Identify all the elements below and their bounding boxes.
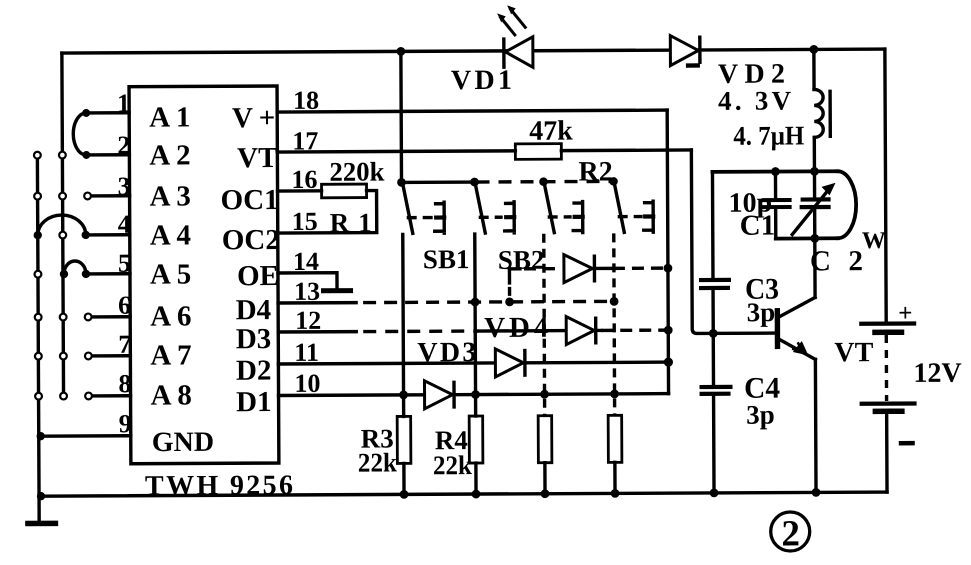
svg-text:VT: VT [834,337,873,368]
svg-text:A 2: A 2 [149,139,190,171]
svg-text:15: 15 [292,207,318,236]
svg-text:VT: VT [237,142,277,174]
svg-text:OC1: OC1 [221,184,279,216]
svg-text:C1: C1 [740,210,776,242]
svg-text:OC2: OC2 [222,224,280,256]
svg-text:VD3: VD3 [417,337,476,368]
svg-text:7: 7 [118,330,131,359]
svg-text:GND: GND [152,427,214,458]
svg-text:3p: 3p [746,400,775,430]
svg-text:13: 13 [294,277,320,306]
svg-text:2: 2 [117,131,130,160]
svg-text:18: 18 [293,86,319,115]
svg-text:SB2: SB2 [498,245,545,275]
svg-text:A 3: A 3 [150,180,191,212]
svg-text:10: 10 [294,369,320,398]
svg-text:14: 14 [293,247,319,276]
svg-text:2: 2 [781,513,800,554]
svg-text:12: 12 [295,306,321,335]
svg-text:A 7: A 7 [150,339,191,371]
svg-text:1: 1 [117,89,130,118]
svg-text:8: 8 [118,369,131,398]
svg-text:V +: V + [232,102,275,134]
svg-text:D2: D2 [236,355,272,387]
svg-text:VD1: VD1 [451,65,512,96]
svg-text:A 8: A 8 [150,379,191,411]
svg-text:R2: R2 [578,156,612,187]
svg-text:11: 11 [294,338,319,367]
svg-text:SB1: SB1 [423,244,470,274]
svg-text:A 5: A 5 [150,258,191,290]
svg-text:D4: D4 [236,294,272,326]
svg-text:D3: D3 [236,323,272,355]
svg-text:A 6: A 6 [150,300,191,332]
svg-text:3: 3 [117,172,130,201]
svg-text:W: W [862,228,886,254]
svg-text:17: 17 [292,126,318,155]
svg-text:220k: 220k [329,156,384,186]
svg-text:5: 5 [118,249,131,278]
svg-text:D1: D1 [236,386,272,418]
svg-text:4. 7μH: 4. 7μH [733,120,804,150]
svg-text:+: + [898,300,912,327]
svg-text:22k: 22k [433,450,472,480]
svg-text:4. 3V: 4. 3V [718,85,792,115]
svg-text:6: 6 [118,291,131,320]
svg-text:4: 4 [118,210,131,239]
svg-text:12V: 12V [913,358,961,389]
svg-text:VD4: VD4 [484,312,548,344]
svg-text:16: 16 [291,165,317,194]
svg-text:A 1: A 1 [149,101,190,133]
svg-text:OE: OE [237,260,279,292]
svg-text:22k: 22k [358,447,397,477]
svg-text:9: 9 [119,409,132,438]
svg-text:A 4: A 4 [150,219,191,251]
svg-text:3p: 3p [747,297,776,327]
svg-text:47k: 47k [529,116,573,147]
